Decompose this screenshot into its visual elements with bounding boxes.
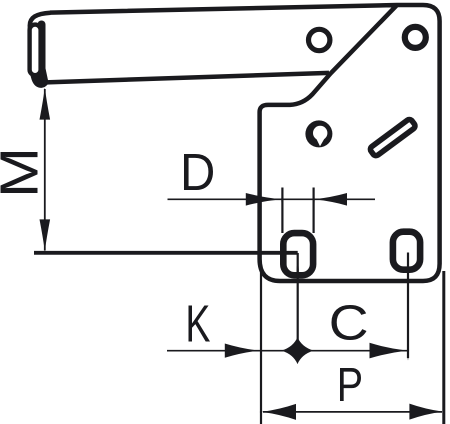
M arrow up [40, 88, 51, 120]
M reference line (hole axis) [34, 251, 298, 255]
spindle on left hole centerline at hole wall [297, 262, 299, 280]
P arrow right-pointing [409, 404, 442, 420]
D arrow left-pointing [314, 193, 347, 206]
angled slot hole [369, 118, 416, 157]
handle cap back wall [38, 21, 46, 79]
K arrow right-pointing [225, 344, 259, 358]
P label [340, 368, 361, 401]
K label [189, 306, 211, 342]
C arrow right-pointing [370, 343, 408, 359]
hole C middle round with teardrop [305, 120, 332, 147]
crossing star at left hole centerline [282, 337, 314, 364]
C label [331, 305, 366, 340]
P arrow left-pointing [262, 404, 296, 420]
hole B top-right round [405, 27, 426, 48]
extension line plate left edge [260, 271, 262, 424]
bottom-right square hole [393, 232, 420, 270]
plate outline with handle top edge [50, 5, 440, 281]
M dimension line [44, 89, 46, 251]
D label [184, 154, 213, 190]
P dimension line [263, 411, 442, 413]
hole A top-left round [309, 29, 330, 50]
D extension line left [281, 188, 283, 234]
D extension line right [313, 188, 315, 234]
extension line right hole center [407, 253, 409, 359]
handle cap slot [30, 25, 41, 76]
M label [0, 152, 37, 193]
extension line left hole center [297, 253, 300, 358]
M arrow down [40, 219, 51, 251]
bottom-left square hole [283, 233, 313, 275]
D dimension line [168, 198, 376, 200]
D arrow right-pointing [246, 193, 281, 206]
extension line plate right edge [442, 271, 445, 424]
handle bar left cap [30, 13, 51, 86]
K and C dimension line [167, 350, 407, 352]
handle cap bottom blob [30, 62, 49, 87]
handle bar bottom edge [46, 73, 329, 83]
